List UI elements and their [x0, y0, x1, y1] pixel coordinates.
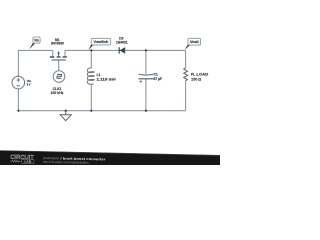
svg-text:R_LOAD: R_LOAD [191, 72, 209, 76]
junction dot ground [65, 110, 67, 112]
inductor L1 coil [87, 68, 94, 85]
svg-text:67 µF: 67 µF [154, 77, 163, 81]
clock source square wave glyph [57, 74, 61, 78]
transistor M1 left stub [52, 50, 54, 56]
wire top rail right segment M1 source to Vout corner [65, 49, 186, 51]
node flag Vin box [33, 37, 40, 43]
wire L1 branch upper [90, 50, 92, 68]
resistor R_LOAD zigzag [184, 68, 188, 81]
junction dot top C1 [145, 49, 147, 51]
capacitor C1 straight plate [139, 78, 154, 80]
ground triangle [60, 115, 71, 121]
junction dot bottom L1 [90, 110, 92, 112]
diode D3 cathode bar [118, 47, 120, 53]
ground stub [65, 111, 67, 115]
transistor M1 right stub [64, 50, 66, 56]
voltage source plus sign [17, 78, 20, 81]
transistor M1 channel pads [50, 56, 54, 58]
diode D3 triangle [120, 47, 126, 54]
node flag Vswitch pointer [88, 44, 93, 50]
voltage source minus sign [17, 85, 20, 87]
svg-text:C1: C1 [154, 72, 158, 76]
svg-text:IRF9630: IRF9630 [51, 41, 64, 45]
capacitor C1 curved plate [139, 73, 154, 76]
wire R_LOAD branch lower [185, 81, 187, 111]
node flag Vin pointer [29, 43, 35, 50]
svg-text:L1: L1 [97, 73, 101, 77]
node flag Vout pointer [185, 44, 191, 50]
junction dot bottom C1 [145, 110, 147, 112]
transistor M1 body leg and arrow [58, 53, 60, 56]
clock source CLK1 circle [53, 71, 65, 83]
wire gate lead M1 to CLK1 [58, 60, 60, 71]
wire top rail left segment Vin to M1 drain [18, 50, 52, 76]
svg-text:1N4001: 1N4001 [116, 41, 128, 45]
footer logo LAB box [22, 159, 34, 163]
node flag Vswitch box [91, 38, 111, 45]
voltage source V1 circle [12, 76, 25, 89]
svg-text:Vin: Vin [34, 39, 39, 43]
capacitor C1 plus mark [140, 80, 143, 83]
svg-text:LAB: LAB [24, 160, 32, 164]
wire bottom rail [18, 110, 185, 112]
wire C1 branch lower [145, 79, 147, 111]
svg-text:1.119 mH: 1.119 mH [97, 77, 117, 81]
footer logo resistor squiggle [10, 160, 21, 162]
svg-text:150 Ω: 150 Ω [191, 77, 201, 81]
junction dot bottom left corner [17, 110, 19, 112]
transistor M1 gate plate [52, 59, 66, 61]
footer bar [0, 150, 225, 177]
wire C1 branch upper [145, 50, 147, 74]
wire L1 branch lower [90, 84, 92, 110]
node flag Vout box [188, 38, 201, 45]
wire left vertical below source [17, 89, 19, 111]
junction dot top L1 [90, 49, 92, 51]
svg-text:Vswitch: Vswitch [94, 40, 109, 44]
svg-text:Vout: Vout [190, 40, 200, 44]
wire R_LOAD branch upper [185, 50, 187, 67]
svg-text:100 kHz: 100 kHz [51, 91, 64, 95]
